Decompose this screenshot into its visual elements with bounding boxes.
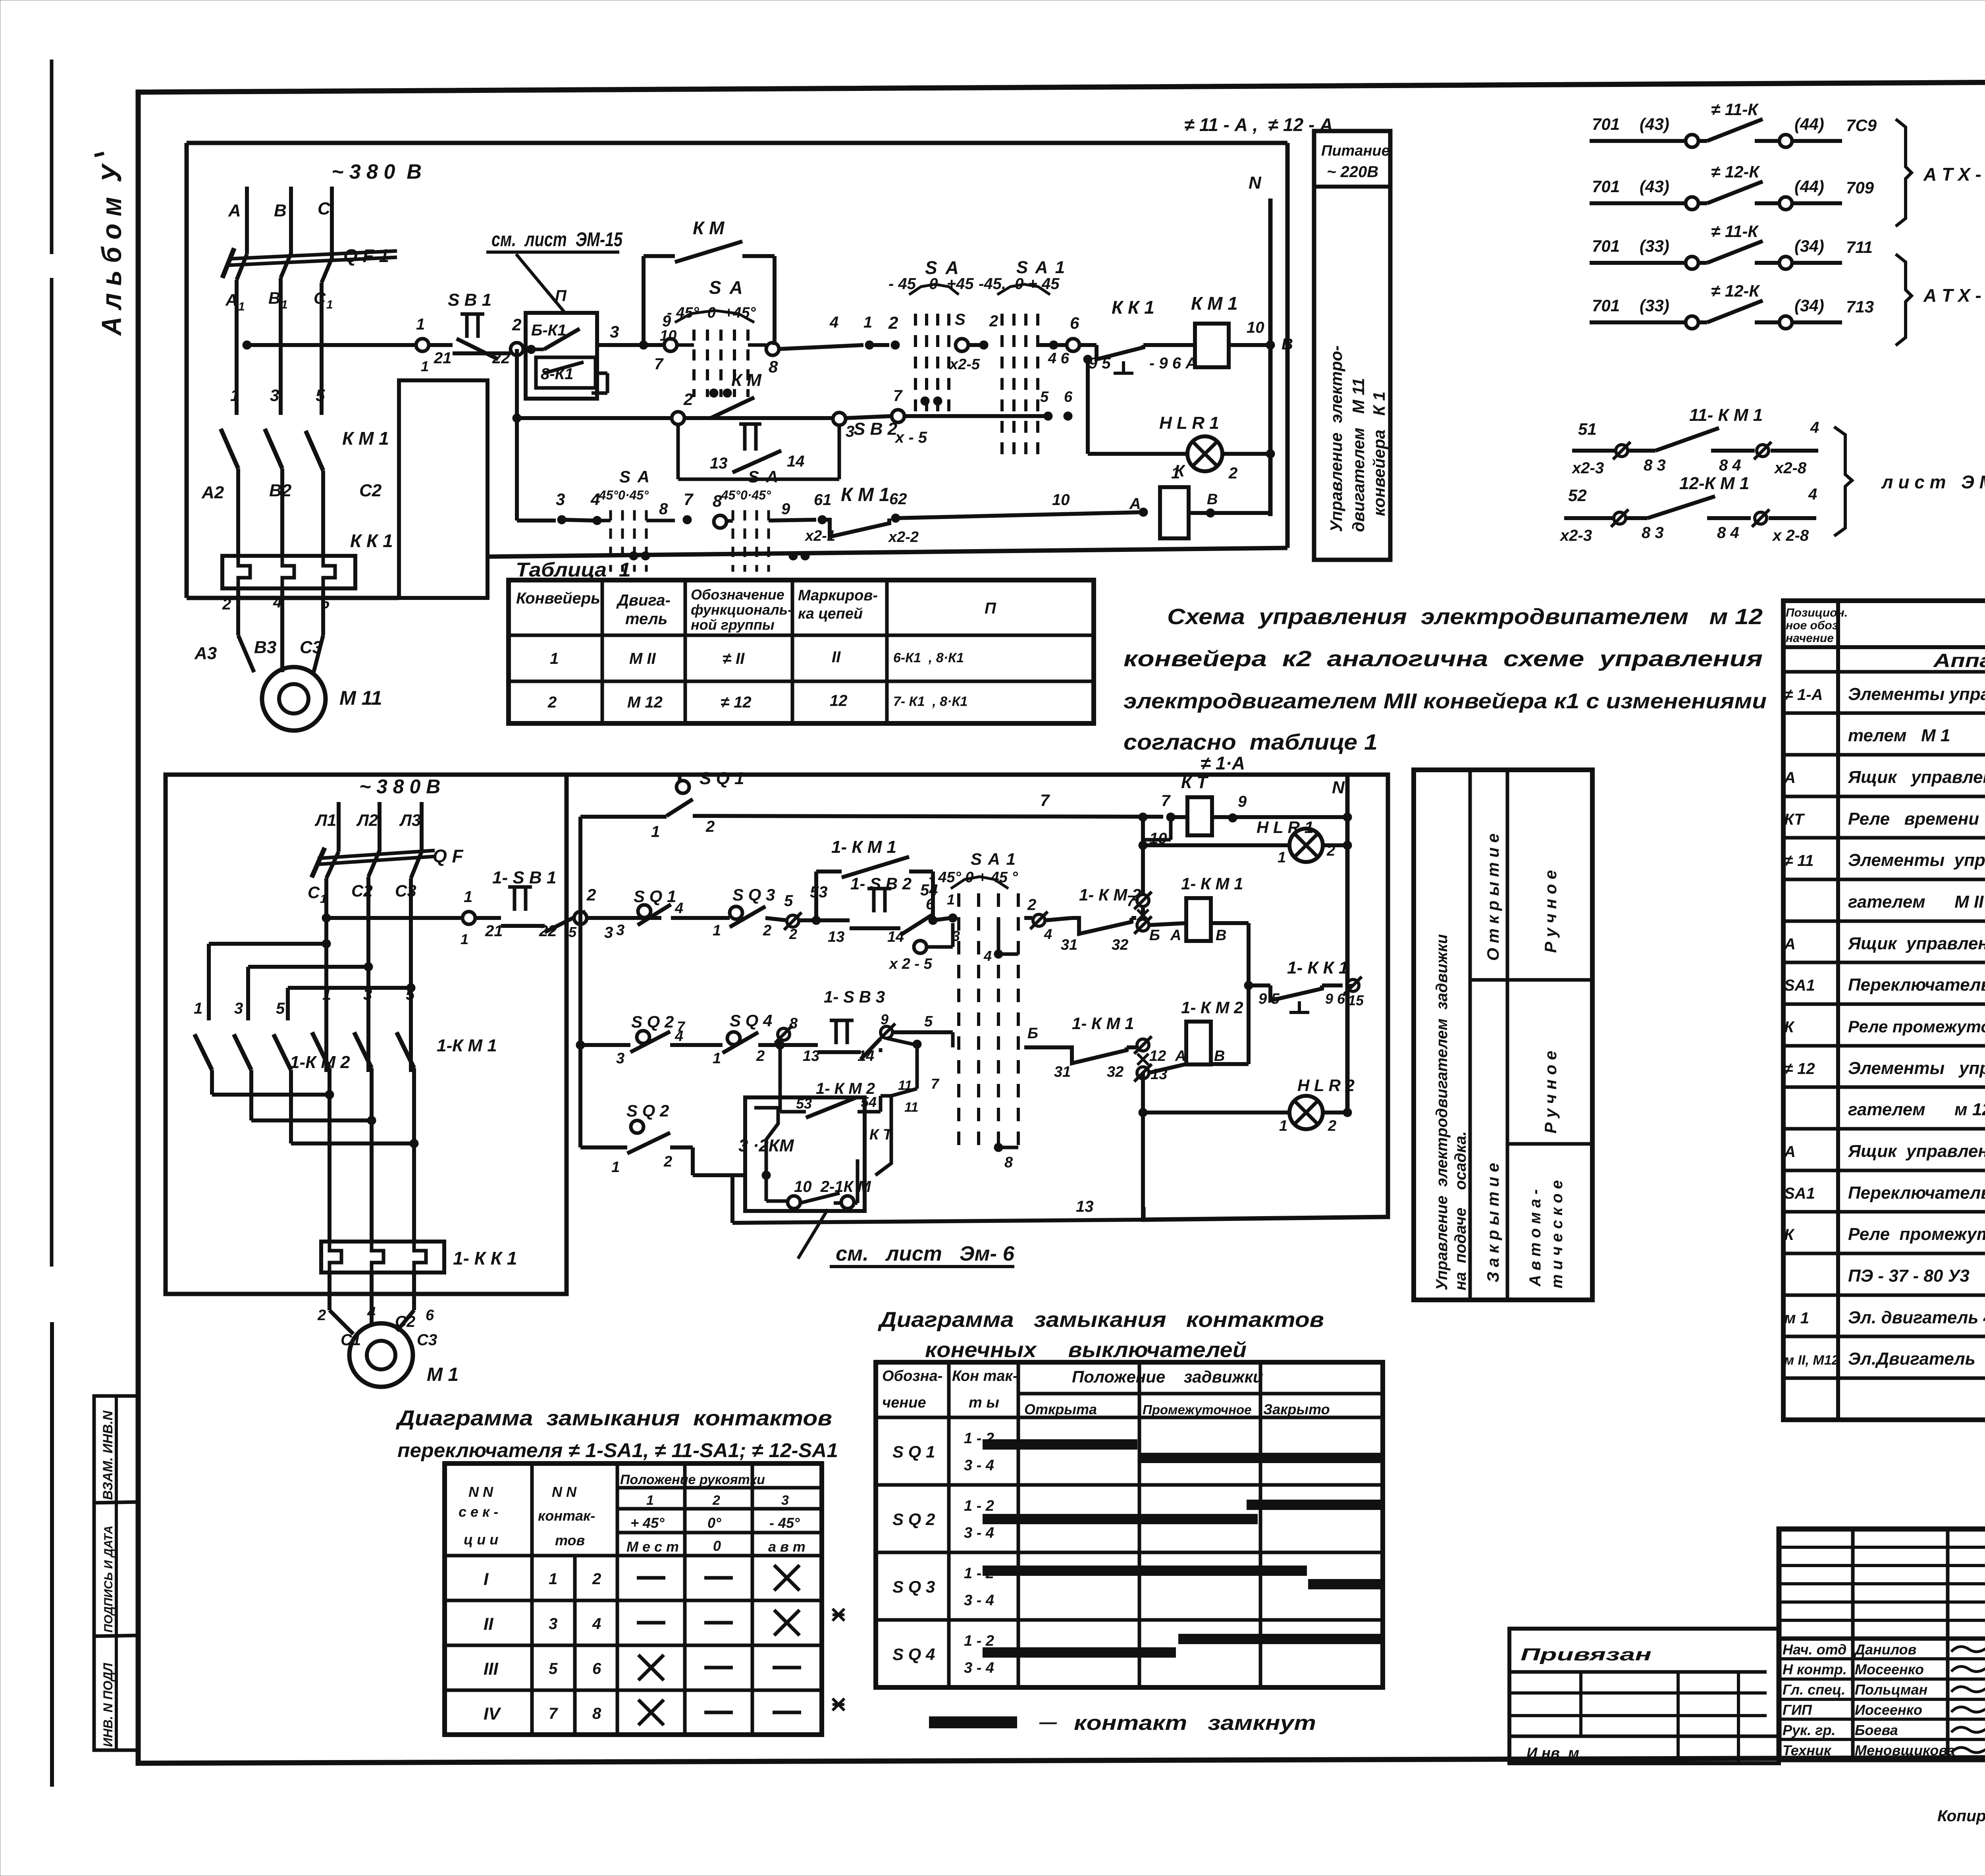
svg-text:1: 1 — [281, 298, 288, 311]
svg-text:В: В — [268, 289, 280, 307]
KT relay row — [1166, 813, 1175, 821]
svg-text:1: 1 — [464, 888, 472, 906]
svg-text:(33): (33) — [1640, 296, 1669, 315]
svg-text:6: 6 — [1070, 314, 1079, 332]
svg-text:ПОДПИСЬ И ДАТА: ПОДПИСЬ И ДАТА — [102, 1525, 115, 1633]
left margin line middle — [50, 278, 54, 1267]
svg-text:S: S — [955, 311, 966, 328]
node 1 bottom — [463, 912, 475, 924]
svg-text:К: К — [1784, 1226, 1795, 1244]
svg-text:ПЭ - 37 - 80 У3: ПЭ - 37 - 80 У3 — [1848, 1266, 1970, 1286]
svg-text:S Q 1: S Q 1 — [700, 769, 744, 788]
svg-text:(34): (34) — [1794, 296, 1824, 315]
svg-text:КТ: КТ — [1784, 811, 1805, 828]
svg-text:—: — — [1039, 1712, 1057, 1732]
svg-text:~ 220В: ~ 220В — [1327, 163, 1378, 181]
svg-text:8 3: 8 3 — [1644, 457, 1666, 474]
title block revision grid — [1779, 1529, 1985, 1639]
svg-text:5: 5 — [569, 924, 577, 940]
box 3-2KM — [745, 1097, 865, 1211]
node 9/7 — [664, 339, 677, 351]
svg-text:Р у ч н о е: Р у ч н о е — [1541, 1051, 1560, 1134]
svg-text:Ящик управления Я5III - 247: Ящик управления Я5III - 2474 УХЛ 4 — [1848, 934, 1985, 953]
svg-text:701: 701 — [1592, 237, 1620, 255]
svg-text:12: 12 — [830, 692, 848, 710]
svg-text:2: 2 — [705, 818, 715, 835]
svg-text:III: III — [484, 1659, 498, 1679]
svg-text:Ящик управления Я5III-2474: Ящик управления Я5III-2474 УХЛ 4 — [1848, 1141, 1985, 1161]
node 5 row2 — [787, 915, 799, 927]
svg-text:см. лист Эм- 6: см. лист Эм- 6 — [836, 1242, 1015, 1265]
svg-text:ВЗАМ. ИНВ.N: ВЗАМ. ИНВ.N — [100, 1410, 116, 1500]
privyazan table — [1509, 1629, 1779, 1763]
svg-text:С: С — [308, 883, 320, 902]
row2 wire — [515, 349, 519, 521]
svg-text:х 2-8: х 2-8 — [1772, 527, 1809, 544]
KM auxiliary bypass contact (top) — [642, 256, 646, 345]
svg-text:13: 13 — [828, 929, 844, 945]
svg-text:т ы: т ы — [969, 1394, 999, 1411]
limit switch table — [876, 1362, 1383, 1687]
svg-text:1: 1 — [1279, 1118, 1287, 1134]
svg-text:S Q 4: S Q 4 — [730, 1011, 772, 1030]
SQ2 lower contact — [578, 1045, 582, 1147]
svg-text:22: 22 — [539, 922, 557, 940]
svg-text:9: 9 — [1238, 793, 1247, 810]
svg-text:контакт замкнут: контакт замкнут — [1074, 1712, 1316, 1735]
svg-text:х2-8: х2-8 — [1774, 459, 1807, 477]
svg-text:К К 1: К К 1 — [350, 530, 393, 551]
svg-text:7: 7 — [684, 490, 694, 509]
block P with contacts 6-K1 8-K1 — [526, 313, 597, 399]
KM contact row2 — [711, 397, 754, 418]
svg-text:15: 15 — [1348, 992, 1364, 1008]
SQ1 top branch contact — [678, 775, 682, 781]
svg-text:709: 709 — [1846, 178, 1874, 197]
svg-text:2: 2 — [888, 313, 898, 333]
svg-text:2: 2 — [547, 694, 557, 711]
svg-text:9 5: 9 5 — [1258, 991, 1280, 1007]
svg-text:7: 7 — [677, 1018, 686, 1035]
svg-text:М е с т: М е с т — [626, 1539, 679, 1555]
svg-text:Промежуточное: Промежуточное — [1143, 1402, 1252, 1417]
svg-text:ка цепей: ка цепей — [798, 605, 863, 622]
svg-text:В: В — [1207, 491, 1218, 508]
left margin dashed line upper — [50, 60, 54, 254]
svg-text:согласно таблице 1: согласно таблице 1 — [1124, 729, 1378, 754]
svg-text:м 1: м 1 — [1784, 1309, 1809, 1327]
coil 1-KM1 — [1149, 923, 1186, 925]
svg-text:Диаграмма замыкания контак: Диаграмма замыкания контактов — [878, 1308, 1324, 1332]
svg-text:8 4: 8 4 — [1717, 524, 1739, 542]
svg-text:8: 8 — [769, 357, 778, 376]
svg-text:2: 2 — [1228, 465, 1237, 482]
button SB2 bypass loop — [676, 424, 680, 479]
svg-text:- 45°: - 45° — [769, 1515, 800, 1531]
svg-text:3: 3 — [616, 922, 624, 939]
coil K — [1160, 487, 1189, 538]
svg-text:(44): (44) — [1794, 177, 1824, 196]
svg-text:711: 711 — [1846, 238, 1873, 256]
title block main outline — [1779, 1529, 1985, 1760]
svg-text:1- К М 1: 1- К М 1 — [831, 837, 896, 857]
svg-text:3 - 4: 3 - 4 — [964, 1525, 994, 1541]
svg-text:S А: S А — [709, 277, 744, 298]
svg-text:л и с т Э М - 6: л и с т Э М - 6 — [1881, 472, 1985, 492]
svg-text:М 12: М 12 — [627, 694, 663, 711]
svg-text:S А: S А — [619, 467, 651, 486]
svg-text:SА1: SА1 — [1784, 977, 1815, 994]
svg-text:3: 3 — [616, 1050, 624, 1067]
wires A1 B1 C1 down — [235, 345, 239, 415]
svg-text:гателем М II: гателем М II — [1848, 892, 1984, 912]
svg-text:1: 1 — [713, 922, 721, 939]
svg-text:9 6: 9 6 — [1325, 991, 1345, 1007]
valve control mode table — [1414, 770, 1592, 1300]
row3: SQ2 SQ4 contacts — [576, 1041, 585, 1049]
svg-text:6: 6 — [321, 594, 330, 612]
svg-text:Обозна-: Обозна- — [882, 1368, 942, 1384]
svg-text:Q F 1: Q F 1 — [343, 245, 389, 266]
svg-text:≠ 11-К: ≠ 11-К — [1711, 222, 1759, 241]
svg-text:Л2: Л2 — [356, 811, 378, 829]
svg-text:В2: В2 — [269, 481, 292, 500]
top schematic enclosure — [187, 141, 1287, 145]
svg-text:3: 3 — [556, 490, 565, 509]
contact chain ATX-4 row1 — [1590, 139, 1686, 143]
left margin line lower — [50, 1322, 54, 1787]
svg-text:S А 1: S А 1 — [971, 850, 1016, 868]
svg-text:S Q 2: S Q 2 — [892, 1510, 935, 1529]
svg-text:Переключатель ПКУ3 - 12 А -: Переключатель ПКУ3 - 12 А - 3020 У2 — [1848, 1183, 1985, 1203]
svg-text:1-К М 1: 1-К М 1 — [437, 1036, 497, 1055]
svg-text:S А: S А — [748, 467, 779, 486]
node 3 row2 — [833, 413, 846, 425]
svg-text:≠ 11: ≠ 11 — [1784, 852, 1814, 870]
Pitanie ~220V vertical box — [1314, 131, 1390, 560]
svg-text:4: 4 — [675, 900, 683, 917]
svg-text:52: 52 — [1568, 486, 1587, 505]
svg-text:И нв м: И нв м — [1526, 1745, 1579, 1762]
svg-text:1- К М 2: 1- К М 2 — [1181, 998, 1243, 1017]
staff rows — [1779, 1657, 1985, 1660]
svg-text:≠ 11 - А , ≠ 12 - А: ≠ 11 - А , ≠ 12 - А — [1184, 114, 1333, 135]
svg-text:переключателя ≠ 1-SA1, ≠ 11-SA: переключателя ≠ 1-SA1, ≠ 11-SA1; ≠ 12-SA… — [397, 1439, 838, 1461]
svg-text:S B 2: S B 2 — [854, 419, 898, 439]
empty tall box — [399, 380, 488, 598]
node 8 — [766, 343, 779, 355]
svg-text:2: 2 — [222, 596, 231, 613]
callout sm list EM-6 — [798, 1209, 828, 1259]
svg-text:Л1: Л1 — [314, 811, 336, 829]
motor M11 — [262, 667, 326, 731]
svg-text:701: 701 — [1592, 177, 1620, 196]
svg-text:IV: IV — [484, 1704, 501, 1724]
svg-text:N N: N N — [552, 1484, 577, 1500]
svg-text:13: 13 — [710, 455, 728, 472]
svg-text:Положение рукоятки: Положение рукоятки — [620, 1472, 765, 1487]
svg-text:Данилов: Данилов — [1854, 1641, 1916, 1658]
contact chain list EM-6 row2 — [1564, 516, 1648, 520]
svg-text:N N: N N — [468, 1484, 493, 1500]
contact chain ATX-4 row2 — [1590, 201, 1686, 205]
svg-text:Конвейеры: Конвейеры — [516, 590, 604, 607]
svg-text:Иосеенко: Иосеенко — [1855, 1702, 1922, 1718]
legend contact closed — [929, 1716, 1017, 1728]
contact chain ATX-5 row1 — [1590, 261, 1686, 265]
svg-text:5: 5 — [276, 1000, 285, 1017]
svg-text:6-К1 , 8·К1: 6-К1 , 8·К1 — [893, 650, 964, 665]
svg-text:32: 32 — [1112, 937, 1128, 953]
svg-text:≠ 12-К: ≠ 12-К — [1711, 162, 1760, 181]
bottom control circuit box — [564, 775, 1388, 1220]
push button SB1 — [461, 312, 484, 316]
svg-text:А: А — [225, 291, 237, 309]
svg-text:21: 21 — [434, 349, 452, 367]
svg-text:14: 14 — [858, 1048, 874, 1064]
svg-text:4: 4 — [1810, 419, 1819, 436]
motor M1 — [330, 1310, 353, 1334]
brace ATX-4 — [1896, 119, 1912, 226]
contactor 1-KM2 contacts — [195, 1034, 212, 1070]
svg-text:Л3: Л3 — [399, 811, 421, 829]
svg-text:7С9: 7С9 — [1846, 116, 1877, 135]
breaker QF bottom — [318, 850, 435, 858]
svg-text:H L R 2: H L R 2 — [1297, 1076, 1355, 1095]
svg-text:≠ II: ≠ II — [723, 650, 745, 667]
svg-text:1: 1 — [230, 386, 239, 405]
svg-text:2: 2 — [512, 315, 521, 334]
svg-text:С: С — [314, 289, 326, 307]
svg-text:К М: К М — [693, 218, 725, 238]
svg-text:Б: Б — [1149, 927, 1160, 944]
control feed wire row1 — [243, 341, 251, 349]
svg-text:Копировал: Копировал — [1937, 1807, 1985, 1825]
svg-text:4: 4 — [592, 1615, 601, 1633]
svg-text:Техник: Техник — [1783, 1742, 1832, 1758]
closed-contact bars — [983, 1439, 1137, 1450]
svg-text:0: 0 — [713, 1538, 721, 1554]
svg-text:х - 5: х - 5 — [894, 429, 927, 446]
svg-text:701: 701 — [1592, 115, 1620, 133]
1-KM2 aux contact below — [779, 1045, 782, 1112]
svg-text:А Т Х - 4: А Т Х - 4 — [1923, 164, 1985, 185]
reversing crossover wires — [209, 942, 326, 946]
svg-text:х2-2: х2-2 — [888, 529, 919, 546]
node 6 — [1067, 339, 1079, 351]
svg-text:Ящик управления Я5411-2074: Ящик управления Я5411-2074 УХЛ 4 — [1848, 767, 1985, 787]
svg-text:4: 4 — [829, 314, 838, 331]
svg-text:1: 1 — [326, 298, 333, 311]
wire 7 to KT — [580, 815, 667, 819]
svg-text:4: 4 — [1044, 926, 1052, 942]
svg-text:7: 7 — [654, 355, 664, 373]
svg-text:~ 3 8 0 В: ~ 3 8 0 В — [359, 775, 440, 798]
svg-text:К Т: К Т — [1181, 773, 1208, 792]
svg-text:Маркиров-: Маркиров- — [798, 587, 878, 604]
svg-text:II: II — [832, 648, 841, 666]
svg-text:2: 2 — [663, 1153, 672, 1170]
svg-text:К М 1: К М 1 — [841, 484, 890, 505]
svg-text:на подаче осадка.: на подаче осадка. — [1452, 1131, 1469, 1290]
lamp HLR1 bottom — [1139, 841, 1147, 850]
svg-text:конвейера к2 аналогична схе: конвейера к2 аналогична схеме управления — [1124, 646, 1763, 671]
lamp HLR2 row — [1141, 1073, 1145, 1220]
svg-text:К К 1: К К 1 — [1112, 297, 1154, 318]
svg-text:1: 1 — [550, 650, 559, 667]
coil KT — [1187, 797, 1212, 835]
svg-text:12: 12 — [1149, 1048, 1166, 1064]
svg-text:+ 45°: + 45° — [630, 1515, 665, 1531]
svg-text:10 2-1К М: 10 2-1К М — [794, 1178, 871, 1195]
svg-text:13: 13 — [1076, 1198, 1094, 1215]
svg-text:1: 1 — [646, 1493, 654, 1508]
parts list table — [1783, 601, 1985, 1420]
node S — [956, 339, 968, 351]
svg-text:чение: чение — [882, 1394, 926, 1411]
svg-text:Б: Б — [1027, 1025, 1038, 1042]
N bus of top schematic — [1268, 199, 1273, 516]
svg-text:3: 3 — [781, 1493, 789, 1508]
svg-text:А: А — [1129, 495, 1141, 513]
wire 13 — [730, 1175, 734, 1223]
thermal overload KK1 — [222, 556, 355, 588]
svg-text:7: 7 — [1161, 792, 1171, 810]
svg-text:701: 701 — [1592, 296, 1620, 315]
svg-text:1: 1 — [549, 1570, 557, 1588]
svg-text:5: 5 — [406, 986, 415, 1003]
svg-text:1: 1 — [322, 986, 331, 1003]
svg-text:двигателем М 11: двигателем М 11 — [1349, 378, 1368, 532]
wires to motor M11 — [238, 635, 254, 672]
svg-text:3 - 4: 3 - 4 — [964, 1592, 994, 1609]
svg-text:Польцман: Польцман — [1855, 1681, 1928, 1698]
svg-text:см. лист ЭМ-15: см. лист ЭМ-15 — [491, 228, 623, 251]
svg-text:Обозначение: Обозначение — [691, 586, 784, 603]
svg-text:А3: А3 — [194, 644, 217, 663]
svg-text:Реле промежуточное электромагн: Реле промежуточное электромагнитное ПЭ-3… — [1848, 1017, 1985, 1036]
svg-text:С3: С3 — [417, 1331, 437, 1349]
svg-text:А2: А2 — [201, 483, 224, 502]
svg-text:А: А — [1784, 1143, 1796, 1161]
switch position table 1-SA1 — [445, 1463, 822, 1735]
svg-text:Позицион.: Позицион. — [1786, 606, 1848, 619]
svg-text:1: 1 — [651, 823, 660, 841]
svg-text:(34): (34) — [1794, 237, 1824, 255]
signatures squiggles — [1951, 1645, 1985, 1652]
svg-text:а в т: а в т — [768, 1539, 806, 1555]
contact chain list EM-6 row1 — [1572, 449, 1655, 453]
svg-text:электродвигателем МII конвейер: электродвигателем МII конвейера к1 с изм… — [1124, 689, 1767, 713]
svg-text:1- S B 3: 1- S B 3 — [824, 987, 885, 1006]
svg-text:Закрыто: Закрыто — [1263, 1401, 1330, 1417]
svg-text:(43): (43) — [1640, 177, 1669, 196]
svg-text:А Т Х - 5: А Т Х - 5 — [1923, 285, 1985, 306]
svg-text:м II, М12: м II, М12 — [1784, 1353, 1839, 1368]
svg-text:8 3: 8 3 — [1642, 524, 1664, 542]
svg-text:S Q 3: S Q 3 — [892, 1577, 935, 1596]
svg-text:- 9 6 А: - 9 6 А — [1149, 355, 1197, 372]
brace ATX-5 — [1896, 254, 1912, 345]
lamp HLR2 — [1289, 1096, 1323, 1129]
svg-text:Кон так-: Кон так- — [952, 1368, 1018, 1384]
svg-text:ной группы: ной группы — [691, 617, 775, 633]
svg-text:S Q 2: S Q 2 — [626, 1101, 669, 1120]
svg-text:6: 6 — [1064, 389, 1073, 405]
svg-text:S Q 2: S Q 2 — [631, 1012, 674, 1032]
svg-text:1: 1 — [320, 893, 327, 906]
svg-text:8: 8 — [659, 500, 668, 518]
svg-text:≠ 12: ≠ 12 — [1784, 1060, 1815, 1078]
svg-text:Рук. гр.: Рук. гр. — [1783, 1722, 1836, 1738]
svg-text:-45°0·45°: -45°0·45° — [595, 488, 649, 502]
svg-text:В: В — [1214, 1048, 1225, 1064]
svg-text:(43): (43) — [1640, 115, 1669, 133]
svg-text:≠ 1-А: ≠ 1-А — [1784, 686, 1823, 704]
svg-text:3: 3 — [234, 1000, 243, 1017]
svg-text:2: 2 — [712, 1493, 720, 1508]
svg-text:4 6: 4 6 — [1048, 350, 1070, 367]
svg-text:S B 1: S B 1 — [448, 290, 491, 310]
svg-text:Управление электродвигателем: Управление электродвигателем задвижки — [1433, 934, 1451, 1290]
svg-text:Привязан: Привязан — [1521, 1645, 1652, 1664]
svg-text:3: 3 — [604, 924, 613, 941]
1-KK1 chain — [1244, 981, 1253, 990]
svg-text:31: 31 — [1054, 1064, 1071, 1080]
svg-text:О т к р ы т и е: О т к р ы т и е — [1484, 833, 1502, 961]
svg-text:К М 1: К М 1 — [342, 428, 389, 449]
node 8 row3 — [714, 515, 727, 528]
svg-text:10: 10 — [660, 328, 676, 344]
svg-text:4: 4 — [1808, 486, 1817, 503]
svg-text:11: 11 — [904, 1100, 918, 1115]
svg-text:S Q 4: S Q 4 — [892, 1645, 935, 1664]
svg-text:2: 2 — [586, 885, 596, 904]
svg-text:7- К1 , 8·К1: 7- К1 , 8·К1 — [893, 694, 967, 709]
svg-text:5: 5 — [784, 892, 793, 910]
coil 1-KM2 — [1149, 1064, 1186, 1073]
coil KM1 — [1195, 324, 1229, 367]
svg-text:4: 4 — [983, 948, 992, 964]
svg-text:с е к -: с е к - — [459, 1504, 498, 1520]
svg-text:≠ 12-К: ≠ 12-К — [1711, 281, 1760, 300]
node 2 row2 — [672, 412, 684, 424]
svg-text:1- S B 2: 1- S B 2 — [850, 874, 912, 893]
buses L1 L2 L3 — [337, 802, 341, 852]
node 1 — [416, 339, 429, 351]
svg-text:3: 3 — [270, 386, 279, 405]
svg-text:1- К К 1: 1- К К 1 — [1287, 958, 1348, 978]
contactor KM1 main contacts — [221, 429, 238, 469]
svg-text:2: 2 — [763, 922, 771, 939]
svg-text:10: 10 — [1052, 491, 1070, 509]
svg-text:Открыта: Открыта — [1024, 1401, 1097, 1417]
SQ1 contact slash — [667, 799, 693, 816]
svg-text:ц и и: ц и и — [464, 1531, 498, 1548]
svg-text:В: В — [274, 201, 287, 220]
svg-text:I: I — [484, 1569, 489, 1589]
svg-text:Q F: Q F — [433, 846, 464, 866]
svg-text:14: 14 — [887, 929, 904, 945]
svg-text:1: 1 — [863, 314, 872, 331]
svg-text:3 - 4: 3 - 4 — [964, 1457, 994, 1474]
tap to 1-SB1 — [322, 914, 331, 922]
svg-text:1: 1 — [1278, 849, 1286, 866]
svg-text:3: 3 — [610, 322, 619, 341]
three phase buses A B C — [245, 187, 249, 254]
svg-text:5: 5 — [924, 1013, 933, 1030]
svg-text:8 4: 8 4 — [1719, 457, 1741, 474]
